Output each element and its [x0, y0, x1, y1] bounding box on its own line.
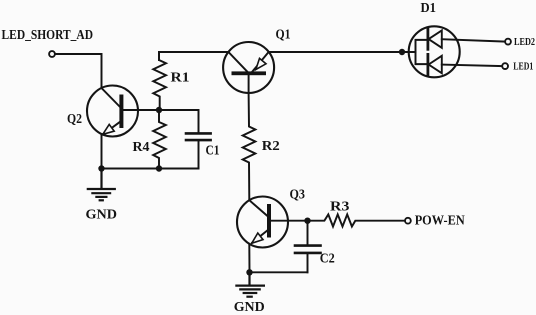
svg-text:POW-EN: POW-EN — [415, 214, 465, 229]
transistor Q3 — [237, 197, 308, 248]
ground symbol bottom — [236, 272, 264, 296]
terminal LED1 — [502, 63, 508, 69]
svg-text:Q3: Q3 — [290, 187, 306, 202]
junction dot Q2-emitter / rail — [98, 165, 104, 171]
svg-text:D1: D1 — [421, 1, 437, 16]
wire bottom-left rail — [102, 168, 199, 170]
terminal LED_SHORT_AD — [49, 51, 55, 57]
wire C1 bottom lead — [198, 141, 200, 168]
resistor R1 — [153, 52, 166, 110]
transistor Q1 — [223, 42, 274, 93]
transistor Q2 — [87, 86, 159, 137]
junction dot R1/R4/Q2-base/C1 — [156, 107, 162, 113]
wire bottom rail to C2 — [250, 271, 308, 273]
svg-text:GND: GND — [86, 208, 118, 223]
resistor R3 with leads — [308, 214, 406, 226]
terminal LED2 — [505, 39, 511, 45]
junction dot Q3 emitter — [246, 269, 252, 275]
svg-text:Q1: Q1 — [276, 28, 291, 43]
wire Q1 emitter to D1 — [269, 51, 416, 53]
terminal POW-EN — [405, 218, 411, 224]
svg-text:R4: R4 — [133, 140, 150, 155]
wire Q2 emitter to ground junction — [101, 134, 103, 168]
resistor R2 with leads — [243, 93, 256, 200]
svg-text:LED2: LED2 — [514, 37, 535, 48]
wire C2 bottom lead — [307, 254, 309, 272]
junction dot Q3 base / R3 / C2 — [304, 218, 310, 224]
svg-text:R3: R3 — [330, 199, 349, 214]
junction dot R4 bottom — [156, 165, 162, 171]
dual LED D1 — [409, 26, 460, 77]
wire Q3 emitter to ground junction — [248, 244, 250, 272]
svg-text:LED_SHORT_AD: LED_SHORT_AD — [2, 28, 94, 43]
svg-text:Q2: Q2 — [67, 112, 82, 127]
capacitor C2 — [295, 246, 321, 253]
svg-text:LED1: LED1 — [513, 61, 533, 72]
svg-text:R1: R1 — [171, 71, 190, 86]
svg-text:R2: R2 — [262, 139, 280, 154]
resistor R4 — [153, 110, 166, 169]
wire D1 bottom anode to LED1 — [442, 65, 503, 67]
wire D1 top anode to LED2 — [442, 39, 505, 41]
wire C2 top lead — [307, 221, 309, 245]
ground symbol left — [88, 169, 115, 201]
wire C1 top lead — [159, 110, 199, 132]
svg-text:C1: C1 — [206, 144, 220, 159]
svg-text:C2: C2 — [320, 252, 335, 267]
svg-text:GND: GND — [234, 300, 265, 315]
capacitor C1 — [186, 133, 211, 140]
junction dot D1 common — [399, 49, 405, 55]
wire LED_SHORT_AD to Q2 collector — [55, 54, 102, 88]
wire top rail R1 to Q1 — [159, 52, 229, 60]
